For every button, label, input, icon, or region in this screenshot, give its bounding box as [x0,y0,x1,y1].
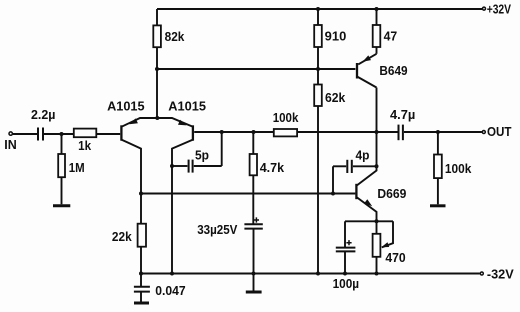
wire 1k to Q1 base [96,133,120,135]
wire 82k top lead [156,9,158,25]
wire 62k top lead [317,69,319,84]
ground bar under rail at 33u [246,291,262,294]
svg-text:1k: 1k [78,138,92,153]
junction input / 1M [60,132,64,136]
wire 33u to -32V rail [253,229,255,274]
junction 82k column / B649 base row [155,67,159,71]
svg-text:100k: 100k [445,161,472,176]
wire 1M top lead [61,134,63,154]
capacitor 100u [336,240,356,251]
svg-text:D669: D669 [377,186,406,201]
resistor 470 preset [373,221,381,273]
svg-text:100k: 100k [273,110,299,125]
wire 82k to diff pair emitters [156,47,158,118]
wire 4.7k to 33u [252,175,254,224]
wire B649 collector to output node [376,88,378,133]
svg-text:82k: 82k [165,29,186,44]
svg-text:5p: 5p [195,148,209,163]
svg-text:-32V: -32V [487,267,514,282]
terminal +32V [483,7,486,10]
svg-text:IN: IN [4,137,16,152]
resistor 1k [74,129,97,138]
wire 47 to B649 emitter [376,47,378,54]
resistor 100k load [434,155,442,179]
wire 1M to ground [61,177,63,204]
svg-text:+32V: +32V [487,2,511,17]
transistor Q2 B649 PNP [357,54,377,88]
wiper arrow of 470 [381,221,393,247]
junction base row / 5p riser [220,130,224,134]
junction 4p / D669 collector [375,164,379,168]
wire B649 base row [157,68,355,70]
capacitor 33u25V [244,217,262,228]
terminal OUT [482,131,485,134]
wire IN to 2.2u [13,133,37,135]
wire 22k to -32V rail [140,247,142,274]
junction base row / 4.7k [252,130,256,134]
terminal IN [9,132,12,135]
junction top rail / 47 [375,7,379,11]
transistor Q4 D669 NPN [356,132,376,221]
capacitor 5p [172,160,222,173]
wire 100u to -32V rail [344,252,346,274]
wire 47 top lead [376,9,378,25]
junction OUT / 100k load [436,130,440,134]
wire +32V top rail [157,8,482,10]
svg-text:4.7k: 4.7k [260,160,285,175]
ground under 100k load [430,204,446,207]
wire 4.7k top lead [252,132,254,154]
wire 62k to -32V rail [317,106,319,274]
terminal -32V [480,272,483,275]
resistor 82k [153,25,161,47]
svg-text:2.2µ: 2.2µ [31,107,55,122]
junction base row / 910-62k column [316,67,320,71]
resistor 4.7k [250,154,257,175]
wire -32V bottom rail [141,273,480,275]
wire VAS base row to D669 [141,193,355,195]
svg-text:OUT: OUT [487,124,512,139]
wire emitter node horizontal [345,220,393,222]
wire 100k load to ground [437,178,439,204]
svg-text:22k: 22k [112,229,133,244]
svg-text:0.047: 0.047 [155,283,185,298]
junction diff pair emitters [155,116,159,120]
svg-text:B649: B649 [379,63,407,78]
capacitor 4p [333,160,377,194]
svg-text:4p: 4p [356,147,370,162]
transistor Q3 A1015 right PNP [157,118,193,274]
svg-text:470: 470 [385,250,405,265]
resistor 47 [373,25,381,47]
resistor 100k feedback [274,129,297,136]
capacitor 0.047 [134,274,150,303]
svg-text:4.7µ: 4.7µ [390,107,415,122]
svg-text:100µ: 100µ [333,276,360,291]
wire 910 bottom lead [317,47,319,69]
junction rail / 22k column [139,272,143,276]
wire 4.7u to OUT [404,131,482,133]
junction Q1 collector / VAS base row [139,192,143,196]
wire 100k to 4.7u [297,131,398,133]
resistor 1M [58,154,65,177]
junction Q3 collector / 5p [170,164,174,168]
svg-text:1M: 1M [69,160,85,175]
svg-text:47: 47 [384,29,398,44]
junction 33u / -32V rail [252,272,256,276]
svg-text:910: 910 [325,29,347,44]
wire 910 top lead [317,9,319,25]
wire 5p riser to base row [221,132,223,166]
resistor 22k [138,224,146,247]
capacitor 4.7u [399,125,403,141]
junction top rail / 910 [316,7,320,11]
junction VAS row / 4p riser [331,192,335,196]
junction output node [375,130,379,134]
junction 470 / -32V rail [375,272,379,276]
wire Q3 base to 100k [194,131,274,133]
wire 2.2u to 1k [44,133,74,135]
junction Q3 collector / -32V rail [170,272,174,276]
junction D669 emitter node [375,219,379,223]
resistor 62k [314,85,322,107]
ground under 1M [53,204,70,207]
wire 100k load top lead [437,132,439,155]
svg-text:A1015: A1015 [168,98,206,113]
svg-text:62k: 62k [325,90,346,105]
wire 100u top lead [344,221,346,247]
transistor Q1 A1015 left PNP [121,118,157,224]
capacitor 2.2u [38,128,43,141]
junction 100u / -32V rail [343,272,347,276]
ground under 0.047 [134,302,149,305]
svg-text:A1015: A1015 [107,98,145,113]
ground stub under rail at 33u [253,274,255,292]
resistor 910 [314,25,322,47]
junction rail / 62k column [316,272,320,276]
svg-text:33µ25V: 33µ25V [197,222,238,237]
